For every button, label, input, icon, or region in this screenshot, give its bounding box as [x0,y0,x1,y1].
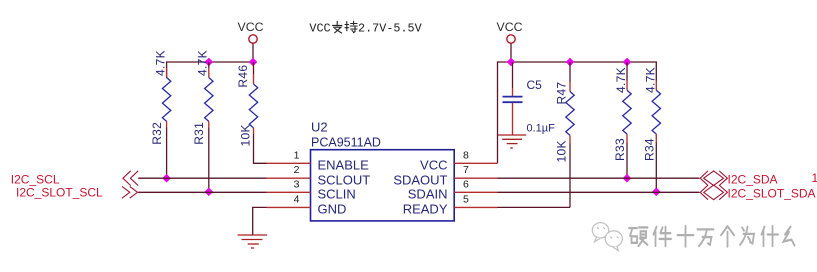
pin 2 stub [267,177,311,179]
wire R33 bottom to I2C_SDA net [626,143,628,179]
svg-text:10K: 10K [555,140,569,162]
svg-text:VCC: VCC [420,158,447,173]
svg-text:R46: R46 [236,65,250,88]
svg-text:I2C_SDA: I2C_SDA [728,172,778,186]
wire I2C_SDA net [498,177,700,179]
pin 3 stub [267,191,311,193]
hanzi 支持 (drawn) [333,21,358,33]
wire R34 bottom to I2C_SLOT_SDA net [655,143,657,192]
junction R34 / wire2R [653,188,660,195]
svg-text:2.7V-5.5V: 2.7V-5.5V [358,21,423,35]
svg-text:6: 6 [463,178,469,190]
svg-text:10K: 10K [238,124,252,146]
resistor R32 [150,50,171,145]
svg-text:4.7K: 4.7K [614,67,628,93]
svg-text:VCC: VCC [238,20,264,34]
resistor R33 [613,62,631,161]
svg-text:4.7K: 4.7K [153,50,167,76]
ground (C5) [498,135,527,148]
junction at R31 top [205,58,212,65]
svg-text:R34: R34 [642,138,656,161]
resistor R34 [642,67,660,161]
件 [656,229,674,244]
pin 1 stub [267,162,311,164]
svg-text:U2: U2 [311,120,328,135]
为 [742,229,756,243]
junction VCC2 [507,58,514,65]
svg-text:PCA9511AD: PCA9511AD [311,135,381,149]
wire R46 bottom to pin1 [254,134,267,163]
pin 6 stub [454,191,497,193]
resistor R47 [554,62,574,163]
svg-text:1: 1 [294,149,300,161]
wire R31 bottom to I2C_SLOT_SCL net [208,128,210,192]
IC U2 PCA9511AD [311,120,455,221]
svg-text:4: 4 [294,193,300,205]
svg-text:ENABLE: ENABLE [318,158,370,173]
pin stub R34 top [655,81,657,91]
port connector I2C_SLOT_SCL (left, double chevron out) [122,186,138,198]
wire VCC1 drop [252,43,254,62]
svg-text:I2C_SCL: I2C_SCL [11,172,60,186]
十 [680,228,696,244]
pin 5 stub [454,206,497,208]
硬 [631,229,650,244]
wire R47 bottom to READY net [569,144,571,208]
watermark text 硬件十万个为什么 (drawn strokes) [631,228,797,244]
svg-text:R32: R32 [150,122,164,145]
power VCC symbol (right) [497,20,523,43]
svg-text:R33: R33 [613,138,627,161]
万 [700,231,716,244]
svg-text:3: 3 [294,178,300,190]
svg-text:VCC: VCC [309,21,330,35]
port connector I2C_SLOT_SDA (right, diamond) [700,185,727,200]
svg-text:C5: C5 [527,78,543,92]
ground (pin4) [238,235,268,248]
watermark logo (chat bubbles) [592,223,622,251]
port connector I2C_SDA (right, diamond) [700,171,727,186]
svg-text:VCC: VCC [497,20,523,34]
wire READY net [498,206,571,208]
power VCC symbol (left) [238,20,264,43]
个 [723,228,736,244]
wire pin4 to ground [253,207,267,235]
什 [764,228,781,244]
svg-text:SDAOUT: SDAOUT [393,172,447,187]
junction R33 / wire1R [623,175,630,182]
svg-text:R31: R31 [192,122,206,145]
resistor R31 [192,50,213,145]
resistor R46 [236,62,258,147]
svg-text:7: 7 [463,164,469,176]
junction R31 / wire2 [205,188,212,195]
junction R32 / wire1 [163,175,170,182]
svg-text:SCLOUT: SCLOUT [318,172,371,187]
junction R47 top [566,58,573,65]
wire VCC2 drop [510,43,512,62]
junction at R46/VCC rail [249,58,256,65]
么 [786,229,797,244]
svg-text:SDAIN: SDAIN [408,187,448,202]
svg-text:SCLIN: SCLIN [318,187,356,202]
pin 7 stub [454,177,497,179]
svg-text:8: 8 [463,149,469,161]
capacitor C5 [503,62,556,135]
wire I2C_SLOT_SCL net [138,191,266,193]
svg-text:4.7K: 4.7K [196,50,210,76]
wire I2C_SCL net [138,177,266,179]
port connector I2C_SCL (left, double chevron) [123,171,138,186]
svg-text:0.1µF: 0.1µF [527,123,556,135]
pin 4 stub [267,206,311,208]
wire I2C_SLOT_SDA net [498,191,700,193]
pin 8 stub [454,162,497,164]
svg-text:1: 1 [812,171,817,185]
svg-text:5: 5 [463,193,469,205]
svg-text:GND: GND [318,202,347,217]
svg-text:I2C_SLOT_SDA: I2C_SLOT_SDA [728,187,816,201]
wire left VCC rail [167,62,254,78]
svg-text:I2C_SLOT_SCL: I2C_SLOT_SCL [16,185,103,199]
wire R32 bottom to I2C_SCL net [166,128,168,179]
svg-text:4.7K: 4.7K [644,67,658,93]
svg-text:READY: READY [403,202,448,217]
svg-text:R47: R47 [554,82,568,105]
svg-text:2: 2 [294,164,300,176]
junction R33 top [623,58,630,65]
wire right VCC rail [498,62,657,163]
